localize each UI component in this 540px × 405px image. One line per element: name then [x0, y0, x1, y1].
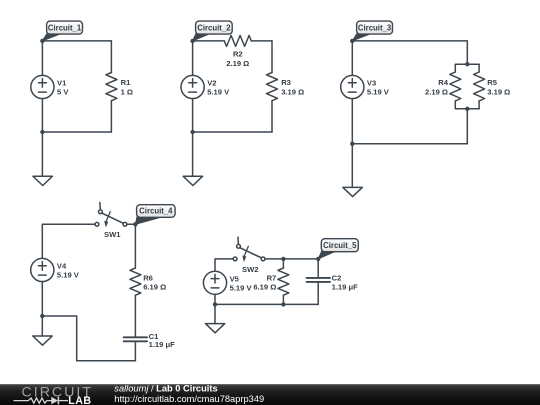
ground circuit1 [33, 176, 52, 185]
ground circuit5 [205, 324, 224, 333]
voltage source V5 [203, 271, 252, 294]
wire circuit5 V5 top riser [215, 259, 233, 271]
wire circuit2 top-right [251, 40, 272, 42]
wire circuit4 V4 top riser [42, 224, 95, 258]
svg-text:LAB: LAB [68, 395, 91, 405]
switch SW1 top throw stub [99, 203, 101, 210]
svg-text:salloumj / Lab 0 Circuits: salloumj / Lab 0 Circuits [114, 384, 217, 394]
svg-text:5.19 V: 5.19 V [57, 271, 80, 280]
wire circuit4 below C1 [134, 341, 136, 361]
switch SW2 actuator arrow [244, 246, 248, 256]
wire circuit3 ground stem [351, 144, 353, 188]
switch SW2 throw terminal [261, 257, 265, 261]
svg-text:Circuit_1: Circuit_1 [48, 23, 82, 32]
svg-text:2.19 Ω: 2.19 Ω [226, 59, 249, 68]
svg-text:3.19 Ω: 3.19 Ω [487, 88, 510, 97]
resistor R6 [130, 268, 166, 295]
wire circuit4 ground stem [41, 316, 43, 336]
wire circuit5 V5 bottom [214, 294, 216, 304]
svg-text:6.19 Ω: 6.19 Ω [143, 283, 166, 292]
svg-text:R3: R3 [281, 78, 291, 87]
node circuit4 ground junction [40, 314, 44, 318]
label Circuit_4 [135, 205, 175, 225]
voltage source V1 [31, 75, 70, 98]
voltage source V2 [181, 75, 230, 98]
capacitor C1 [124, 332, 175, 349]
node Circuit_4 [133, 222, 137, 226]
capacitor C2 [307, 274, 359, 292]
svg-text:Circuit_2: Circuit_2 [197, 23, 231, 32]
resistor R7 [253, 268, 289, 295]
wire circuit5 switch to C2 branch [266, 258, 318, 260]
label Circuit_5 [318, 239, 358, 259]
svg-text:R4: R4 [438, 78, 448, 87]
node circuit2 bottom junction [190, 130, 194, 134]
svg-text:1.19 μF: 1.19 μF [332, 283, 359, 292]
svg-text:V5: V5 [230, 274, 240, 283]
wire circuit1 left lower [41, 99, 43, 133]
label Circuit_3 [352, 21, 392, 41]
switch SW1 throw terminal [123, 222, 127, 226]
switch SW2 top throw terminal [237, 244, 241, 248]
svg-text:V4: V4 [57, 262, 67, 271]
wire circuit5 R7 lower lead [282, 295, 284, 304]
wire circuit1 bottom [42, 131, 111, 133]
resistor R5 [474, 72, 511, 101]
wire circuit3 parallel top bar [455, 63, 479, 65]
svg-text:C2: C2 [332, 274, 342, 283]
switch SW1 lever [102, 213, 123, 223]
node Circuit_1 [40, 39, 44, 43]
switch SW1 pole terminal [95, 222, 99, 226]
node Circuit_2 [190, 39, 194, 43]
svg-text:R6: R6 [143, 274, 153, 283]
voltage source V4 [31, 258, 80, 281]
wire circuit2 top-left [193, 40, 225, 42]
node circuit3 parallel bottom junction [465, 107, 469, 111]
wire circuit2 ground stem [192, 132, 194, 176]
wire circuit4 V4 bottom [41, 282, 43, 317]
logo wire with resistor [14, 398, 52, 403]
voltage source V3 [341, 75, 390, 98]
wire circuit2 left upper [192, 41, 194, 76]
switch SW2 lever [240, 248, 261, 258]
label Circuit_1 [42, 21, 82, 41]
wire circuit2 right lower [271, 101, 273, 132]
ground circuit2 [183, 176, 202, 185]
wire circuit5 R7 upper lead [282, 259, 284, 268]
ground circuit4 [33, 336, 52, 345]
switch SW1 top throw terminal [99, 210, 103, 214]
svg-text:5.19 V: 5.19 V [367, 88, 390, 97]
footer bar [0, 384, 540, 405]
wire circuit1 left upper [41, 41, 43, 76]
svg-text:V2: V2 [207, 79, 216, 88]
svg-text:SW2: SW2 [242, 265, 258, 274]
wire circuit2 left lower [192, 99, 194, 133]
wire circuit1 right upper [110, 41, 112, 73]
node Circuit_5 [316, 257, 320, 261]
ground circuit3 [343, 187, 362, 196]
node circuit3 parallel top junction [465, 62, 469, 66]
svg-text:R7: R7 [267, 274, 277, 283]
wire circuit3 left branch leads [454, 64, 456, 72]
svg-text:5.19 V: 5.19 V [230, 283, 253, 292]
wire circuit5 ground stem [214, 304, 216, 323]
node circuit5 R7 top junction [281, 257, 285, 261]
wire circuit2 right upper [271, 41, 273, 73]
svg-text:V3: V3 [367, 79, 376, 88]
svg-text:6.19 Ω: 6.19 Ω [253, 283, 276, 292]
resistor R1 [106, 73, 133, 101]
resistor R4 [425, 72, 461, 101]
switch SW2 pole terminal [233, 257, 237, 261]
svg-text:R5: R5 [487, 78, 497, 87]
node circuit5 ground junction [213, 302, 217, 306]
wire circuit3 right lower drop [466, 109, 468, 144]
label Circuit_2 [193, 21, 233, 41]
logo diode [51, 397, 68, 405]
switch SW1 actuator arrow [106, 211, 110, 221]
svg-text:1.19 μF: 1.19 μF [149, 340, 176, 349]
wire circuit3 bottom [352, 143, 467, 145]
svg-text:http://circuitlab.com/cmau78ap: http://circuitlab.com/cmau78aprp349 [114, 394, 264, 404]
wire circuit3 top [352, 40, 467, 42]
svg-text:2.19 Ω: 2.19 Ω [425, 88, 448, 97]
wire circuit1 right lower [110, 101, 112, 132]
switch SW2 top throw stub [237, 237, 239, 244]
svg-text:3.19 Ω: 3.19 Ω [281, 87, 304, 96]
svg-text:V1: V1 [57, 79, 67, 88]
svg-text:5 V: 5 V [57, 88, 69, 97]
node Circuit_3 [350, 39, 354, 43]
wire circuit3 parallel bottom bar [455, 108, 479, 110]
svg-text:R2: R2 [233, 49, 243, 58]
wire circuit4 right rail mid [134, 295, 136, 337]
wire circuit3 right branch leads [478, 64, 480, 72]
svg-text:Circuit_3: Circuit_3 [358, 23, 392, 32]
wire circuit5 bottom [215, 303, 318, 305]
wire circuit3 right drop [466, 41, 468, 64]
wire circuit1 ground stem [41, 132, 43, 176]
wire circuit5 C2 drop [317, 259, 319, 278]
svg-text:R1: R1 [121, 78, 131, 87]
wire circuit3 left lower [351, 99, 353, 144]
node circuit3 bottom junction [350, 142, 354, 146]
wire circuit5 below C2 [317, 282, 319, 305]
svg-text:1 Ω: 1 Ω [121, 87, 133, 96]
resistor R2 [224, 35, 251, 67]
wire circuit4 switch to node [128, 223, 136, 225]
svg-text:Circuit_4: Circuit_4 [139, 207, 173, 216]
node circuit5 R7 bottom junction [281, 302, 285, 306]
wire circuit1 top [42, 40, 111, 42]
wire circuit4 right rail upper [134, 224, 136, 268]
resistor R3 [267, 73, 305, 101]
node circuit1 bottom junction [40, 130, 44, 134]
wire circuit3 left upper [351, 41, 353, 76]
wire circuit2 bottom [193, 131, 272, 133]
wire circuit4 bottom return [42, 316, 135, 361]
svg-text:SW1: SW1 [104, 230, 121, 239]
svg-text:5.19 V: 5.19 V [207, 88, 230, 97]
svg-text:Circuit_5: Circuit_5 [323, 241, 357, 250]
